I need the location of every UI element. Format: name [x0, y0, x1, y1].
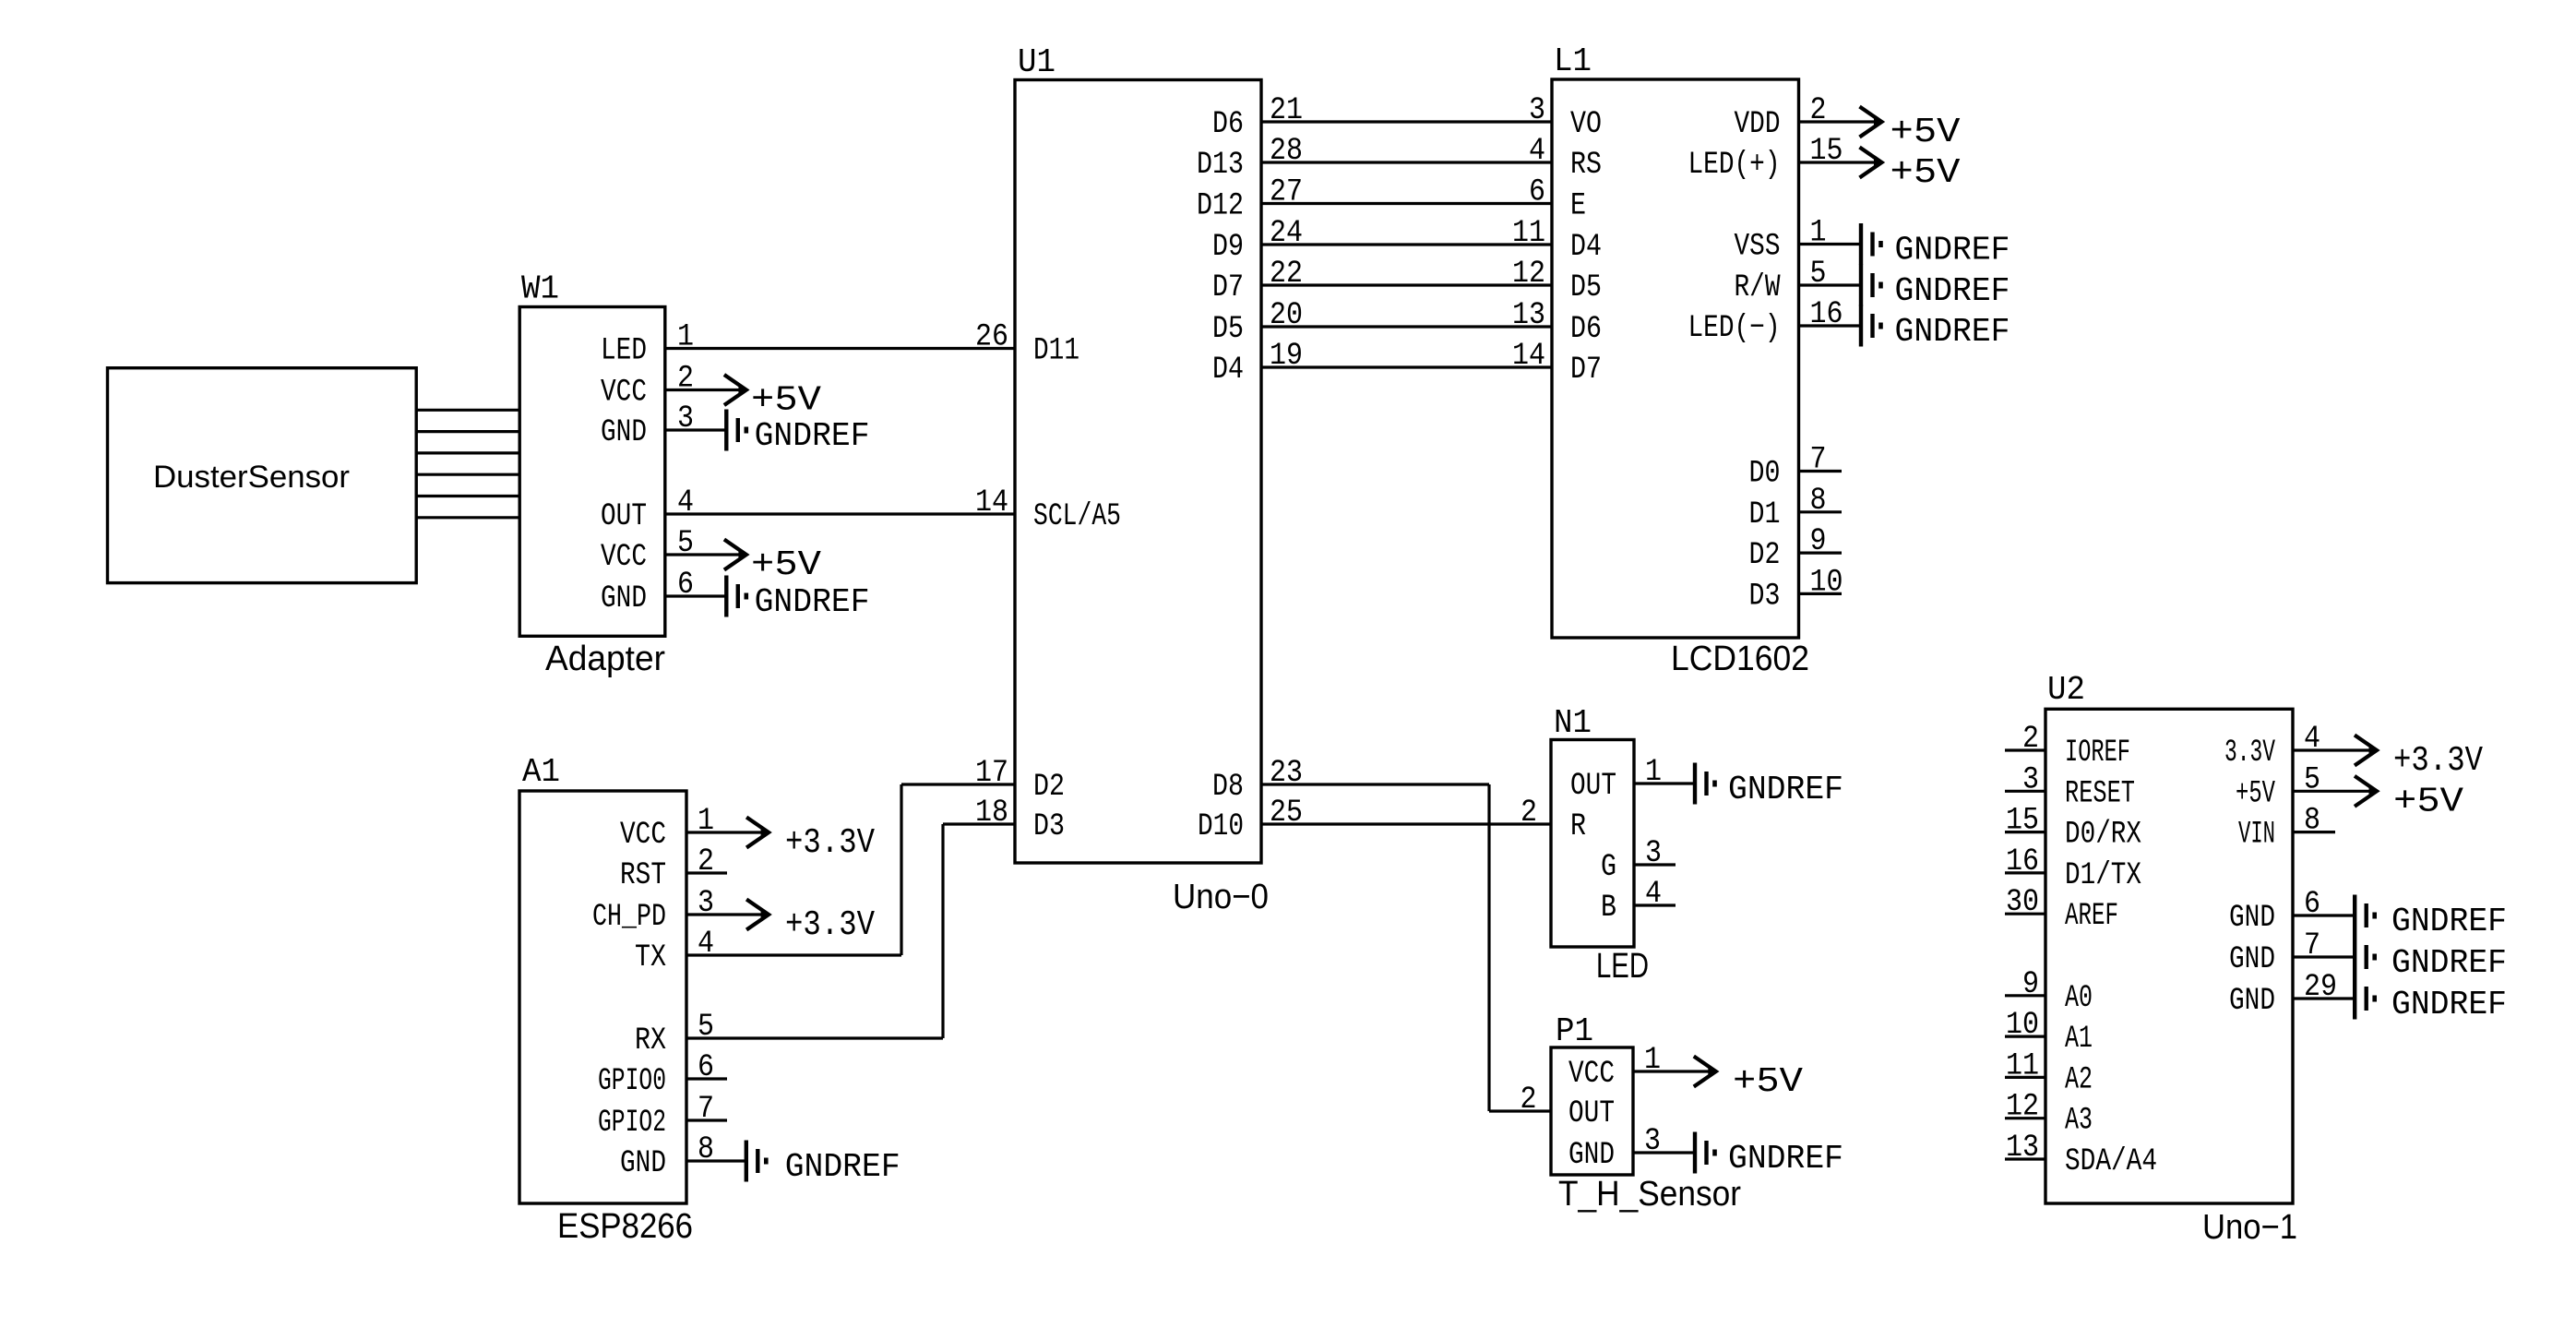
U2 pin 29 GND: [2229, 970, 2337, 1019]
svg-text:D3: D3: [1749, 579, 1781, 614]
A1 pin 3 CH_PD: [592, 886, 714, 935]
U1 pin 23 D8: [1212, 756, 1303, 805]
svg-text:LED: LED: [601, 334, 647, 369]
L1 pin 16 LED(-): [1688, 297, 1843, 346]
svg-text:VCC: VCC: [1568, 1057, 1615, 1092]
U2 pin 6 GND: [2229, 887, 2320, 936]
W1 pin 2 VCC label: [601, 362, 694, 411]
power +5V at W1 pin2: [724, 375, 821, 421]
W1 pin 5 VCC label: [601, 526, 694, 575]
svg-text:VIN: VIN: [2238, 818, 2275, 853]
svg-text:VDD: VDD: [1735, 107, 1781, 142]
L1 pin 6 E: [1529, 175, 1586, 224]
svg-text:GND: GND: [1568, 1138, 1615, 1173]
wire bus line 2 DusterSensor to W1: [416, 430, 519, 433]
ground GNDREF at U2 pin 7: [2355, 937, 2507, 983]
U2 pin 11 A2: [2006, 1048, 2093, 1097]
svg-text:GNDREF: GNDREF: [755, 417, 870, 455]
svg-text:OUT: OUT: [1568, 1096, 1615, 1131]
wire U2 A0 stub: [2005, 994, 2045, 997]
svg-text:AREF: AREF: [2065, 899, 2118, 934]
L1 pin 7 D0 stub: [1749, 443, 1843, 492]
microcontroller U2 Uno-1 body: [2045, 671, 2297, 1247]
U2 pin 8 VIN stub: [2238, 804, 2335, 853]
L1 pin 15 LED(+): [1688, 134, 1843, 183]
L1 pin 14 D7: [1512, 339, 1602, 388]
wire A1 RX to U1 D3 (net RX): [686, 824, 1015, 1038]
svg-text:R: R: [1570, 809, 1586, 844]
wire U2 D1/TX stub: [2005, 871, 2045, 874]
U1 pin 14 SCL/A5: [975, 485, 1121, 534]
A1 pin 7 GPIO2: [598, 1092, 714, 1141]
svg-text:+3.3V: +3.3V: [2393, 741, 2483, 781]
wire U2 A1 stub: [2005, 1035, 2045, 1037]
svg-text:D2: D2: [1033, 770, 1065, 805]
U2 pin 5 +5V: [2236, 762, 2320, 811]
power +3.3V at A1 CH_PD: [746, 900, 875, 946]
W1 pin 1 LED label: [601, 320, 694, 369]
svg-text:D11: D11: [1033, 334, 1079, 369]
A1 pin 1 VCC: [620, 804, 714, 853]
svg-text:GNDREF: GNDREF: [2391, 903, 2507, 940]
power +5V at L1 VDD: [1860, 107, 1961, 153]
svg-text:D7: D7: [1212, 270, 1244, 305]
svg-text:GNDREF: GNDREF: [1728, 1140, 1843, 1178]
wire W1 pin3 to GNDREF: [665, 428, 727, 431]
wire U1 to L1 RS: [1261, 161, 1552, 163]
L1 pin 8 D1 stub: [1749, 484, 1843, 532]
svg-text:U2: U2: [2047, 671, 2085, 709]
svg-text:GPIO0: GPIO0: [598, 1064, 666, 1099]
svg-text:CH_PD: CH_PD: [592, 900, 666, 935]
svg-text:L1: L1: [1554, 42, 1592, 80]
wire bus line 5 DusterSensor to W1: [416, 495, 519, 497]
svg-text:D6: D6: [1570, 312, 1602, 347]
svg-text:D7: D7: [1570, 353, 1602, 388]
svg-text:D4: D4: [1212, 353, 1244, 388]
wire U2 +5V to +5V: [2293, 790, 2378, 793]
wire U1 to L1 D7: [1261, 365, 1552, 368]
U2 pin 10 A1: [2006, 1008, 2093, 1057]
L1 pin 2 VDD: [1735, 93, 1827, 142]
connector W1 body: [519, 270, 665, 678]
svg-text:D13: D13: [1197, 148, 1244, 183]
U1 pin 25 D10: [1198, 796, 1303, 844]
ground GNDREF at L1 LED(-): [1861, 305, 2010, 352]
U1 pin 20 D5: [1212, 298, 1303, 347]
wire bus line 3 DusterSensor to W1: [416, 451, 519, 454]
L1 pin 13 D6: [1512, 298, 1602, 347]
power +5V at W1 pin5: [724, 540, 821, 586]
wire U2 A3 stub: [2005, 1117, 2045, 1119]
U2 pin 4 3.3V: [2224, 722, 2320, 771]
wire L1 LED(-) to GNDREF: [1799, 324, 1862, 327]
L1 pin 5 R/W: [1735, 257, 1827, 305]
ground GNDREF at L1 VSS: [1861, 223, 2010, 269]
U1 pin 18 D3: [975, 796, 1065, 844]
U1 pin 22 D7: [1212, 257, 1303, 305]
microcontroller U1 Uno-0 body: [1015, 43, 1269, 916]
svg-text:GNDREF: GNDREF: [1895, 313, 2010, 351]
wire L1 VDD to +5V: [1799, 120, 1883, 123]
component DusterSensor (sensor block): [108, 368, 417, 583]
svg-text:GNDREF: GNDREF: [1728, 771, 1843, 808]
L1 pin 11 D4: [1512, 216, 1602, 265]
svg-text:TX: TX: [635, 940, 666, 975]
wire U2 RESET stub: [2005, 790, 2045, 793]
A1 pin 8 GND: [620, 1132, 714, 1181]
svg-text:D5: D5: [1570, 270, 1602, 305]
svg-text:VCC: VCC: [620, 818, 666, 853]
svg-text:GNDREF: GNDREF: [785, 1148, 900, 1186]
U2 pin 3 RESET: [2022, 762, 2135, 811]
svg-text:U1: U1: [1018, 43, 1055, 81]
svg-text:RX: RX: [635, 1023, 666, 1059]
power +5V at U2 pin5: [2355, 776, 2463, 822]
wire U1 to L1 VO: [1261, 120, 1552, 123]
U1 pin 27 D12: [1197, 175, 1303, 224]
svg-text:A0: A0: [2065, 981, 2093, 1016]
svg-text:D2: D2: [1749, 538, 1781, 573]
svg-text:RESET: RESET: [2065, 776, 2135, 811]
wire U1 D8 to P1 OUT (net D8): [1261, 784, 1551, 1111]
A1 pin 6 GPIO0: [598, 1050, 714, 1099]
svg-text:Uno−0: Uno−0: [1173, 878, 1269, 916]
module A1 ESP8266 body: [519, 753, 693, 1246]
U1 pin 26 D11: [975, 320, 1079, 369]
P1 pin 1 VCC: [1568, 1043, 1661, 1092]
svg-text:+3.3V: +3.3V: [785, 905, 875, 945]
svg-text:GND: GND: [2229, 984, 2275, 1019]
power +3.3V at U2 pin4: [2355, 736, 2483, 782]
U2 pin 2 IOREF: [2022, 722, 2130, 771]
svg-text:+5V: +5V: [2236, 776, 2275, 811]
svg-text:D1/TX: D1/TX: [2065, 858, 2141, 893]
wire U2 GND pin 6 to GNDREF: [2293, 914, 2355, 916]
wire U2 3.3V to +3.3V: [2293, 748, 2378, 751]
svg-text:G: G: [1601, 850, 1616, 885]
svg-text:+5V: +5V: [1733, 1062, 1803, 1102]
svg-text:+5V: +5V: [2393, 782, 2463, 821]
svg-text:A3: A3: [2065, 1104, 2093, 1139]
U2 pin 13 SDA/A4: [2006, 1131, 2157, 1179]
U2 pin 7 GND: [2229, 928, 2320, 977]
wire U2 GND pin 7 to GNDREF: [2293, 955, 2355, 958]
wire A1 VCC to +3.3V: [686, 831, 769, 833]
wire A1 GPIO2 stub: [686, 1119, 727, 1121]
svg-text:Uno−1: Uno−1: [2202, 1208, 2297, 1247]
U1 pin 17 D2: [975, 756, 1065, 805]
svg-text:D3: D3: [1033, 809, 1065, 844]
svg-text:D0/RX: D0/RX: [2065, 818, 2141, 853]
power +3.3V at A1 VCC: [746, 818, 875, 864]
svg-text:A1: A1: [2065, 1022, 2093, 1057]
svg-text:+5V: +5V: [751, 545, 821, 585]
svg-text:IOREF: IOREF: [2065, 736, 2130, 771]
svg-text:N1: N1: [1554, 704, 1592, 742]
U1 pin 21 D6: [1212, 93, 1303, 142]
U1 pin 24 D9: [1212, 216, 1303, 265]
ground GNDREF at A1 GND: [746, 1141, 900, 1187]
power +5V at L1 LED(+): [1860, 148, 1961, 194]
L1 pin 3 VO: [1529, 93, 1602, 142]
N1 pin 2 R: [1521, 796, 1586, 844]
svg-text:RST: RST: [620, 858, 666, 893]
wire P1 GND to GNDREF: [1633, 1151, 1695, 1154]
L1 pin 9 D2 stub: [1749, 524, 1843, 573]
U2 pin 15 D0/RX: [2006, 804, 2141, 853]
rgb led N1 body: [1551, 704, 1649, 986]
wire W1 pin5 to +5V: [665, 553, 747, 556]
svg-text:D10: D10: [1198, 809, 1244, 844]
svg-text:D12: D12: [1197, 189, 1244, 224]
ground GNDREF at U2 pin 29: [2355, 978, 2507, 1024]
svg-text:VSS: VSS: [1735, 230, 1781, 265]
wire A1 RST stub: [686, 871, 727, 874]
svg-text:GNDREF: GNDREF: [2391, 944, 2507, 982]
wire W1 pin2 to +5V: [665, 389, 747, 391]
wire U1 to L1 E: [1261, 202, 1552, 205]
P1 pin 3 GND: [1568, 1124, 1661, 1173]
svg-text:D9: D9: [1212, 230, 1244, 265]
svg-text:VO: VO: [1570, 107, 1602, 142]
wire U1 to L1 D5: [1261, 283, 1552, 286]
svg-text:LED(+): LED(+): [1688, 148, 1781, 183]
U2 pin 16 D1/TX: [2006, 844, 2141, 893]
svg-text:LCD1602: LCD1602: [1671, 640, 1809, 678]
wire bus line 4 DusterSensor to W1: [416, 473, 519, 476]
L1 pin 12 D5: [1512, 257, 1602, 305]
svg-text:GNDREF: GNDREF: [1895, 232, 2010, 269]
wire A1 TX to U1 D2 (net TX): [686, 784, 1015, 955]
U2 pin 12 A3: [2006, 1090, 2093, 1139]
svg-text:ESP8266: ESP8266: [557, 1207, 693, 1246]
svg-text:B: B: [1601, 891, 1616, 926]
svg-text:E: E: [1570, 189, 1586, 224]
svg-text:T_H_Sensor: T_H_Sensor: [1558, 1175, 1741, 1214]
svg-text:3.3V: 3.3V: [2224, 736, 2275, 771]
svg-text:GNDREF: GNDREF: [755, 583, 870, 621]
svg-text:VCC: VCC: [601, 376, 647, 411]
svg-text:LED(−): LED(−): [1688, 311, 1781, 346]
svg-text:+5V: +5V: [1890, 153, 1961, 193]
wire N1 OUT to GNDREF: [1634, 782, 1695, 784]
ground GNDREF at L1 R/W: [1861, 265, 2010, 311]
A1 pin 5 RX: [635, 1010, 714, 1059]
svg-text:+5V: +5V: [751, 381, 821, 421]
svg-text:SCL/A5: SCL/A5: [1033, 499, 1121, 534]
wire bus line 1 DusterSensor to W1: [416, 409, 519, 412]
U1 pin 28 D13: [1197, 134, 1303, 183]
svg-text:GND: GND: [2229, 942, 2275, 977]
wire U2 SDA/A4 stub: [2005, 1157, 2045, 1160]
ground GNDREF at P1 GND: [1695, 1132, 1843, 1178]
svg-text:GND: GND: [2229, 901, 2275, 936]
wire P1 VCC to +5V: [1633, 1070, 1716, 1072]
svg-text:LED: LED: [1596, 947, 1649, 986]
wire W1 LED pin1 to U1 D11: [665, 347, 1015, 350]
wire U2 IOREF stub: [2005, 748, 2045, 751]
ground GNDREF at U2 pin 6: [2355, 895, 2507, 941]
L1 pin 4 RS: [1529, 134, 1602, 183]
svg-text:RS: RS: [1570, 148, 1602, 183]
svg-text:A2: A2: [2065, 1062, 2093, 1097]
svg-text:D0: D0: [1749, 457, 1781, 492]
ground GNDREF at N1 OUT: [1695, 763, 1843, 809]
display L1 LCD1602 body: [1552, 42, 1809, 678]
svg-text:GND: GND: [620, 1146, 666, 1181]
L1 pin 10 D3 stub: [1749, 565, 1843, 614]
svg-text:D4: D4: [1570, 230, 1602, 265]
wire L1 VSS to GNDREF: [1799, 243, 1862, 245]
svg-text:OUT: OUT: [1570, 769, 1616, 804]
W1 pin 3 GND label: [601, 401, 694, 450]
svg-text:GNDREF: GNDREF: [2391, 986, 2507, 1023]
svg-text:GND: GND: [601, 415, 647, 450]
N1 pin 3 G stub: [1601, 836, 1676, 885]
wire U1 D10 to N1 R: [1261, 822, 1551, 825]
svg-text:+3.3V: +3.3V: [785, 823, 875, 863]
wire L1 R/W to GNDREF: [1799, 283, 1862, 286]
svg-text:GNDREF: GNDREF: [1895, 272, 2010, 310]
ground GNDREF at W1 pin3: [726, 410, 869, 456]
U2 pin 9 A0: [2022, 967, 2093, 1016]
wire bus line 6 DusterSensor to W1: [416, 516, 519, 519]
svg-text:D6: D6: [1212, 107, 1244, 142]
svg-text:+5V: +5V: [1890, 113, 1961, 152]
svg-text:GPIO2: GPIO2: [598, 1106, 666, 1141]
wire L1 LED(+) to +5V: [1799, 161, 1883, 163]
svg-text:R/W: R/W: [1735, 270, 1781, 305]
N1 pin 1 OUT: [1570, 755, 1662, 804]
sensor P1 T_H_Sensor body: [1551, 1012, 1741, 1214]
wire U2 AREF stub: [2005, 913, 2045, 915]
N1 pin 4 B stub: [1601, 877, 1676, 926]
U1 pin 19 D4: [1212, 339, 1303, 388]
ground GNDREF at W1 pin6: [726, 576, 869, 622]
svg-text:GND: GND: [601, 581, 647, 616]
W1 pin 4 OUT label: [601, 485, 694, 534]
wire U2 A2 stub: [2005, 1076, 2045, 1079]
power +5V at P1 VCC: [1694, 1057, 1803, 1103]
A1 pin 2 RST: [620, 844, 714, 893]
svg-text:OUT: OUT: [601, 499, 647, 534]
wire A1 GPIO0 stub: [686, 1077, 727, 1080]
svg-text:SDA/A4: SDA/A4: [2065, 1144, 2157, 1179]
svg-text:P1: P1: [1556, 1012, 1593, 1050]
svg-text:D8: D8: [1212, 770, 1244, 805]
wire U1 to L1 D6: [1261, 325, 1552, 328]
svg-text:W1: W1: [521, 270, 559, 308]
wire A1 GND to GNDREF: [686, 1159, 746, 1162]
A1 pin 4 TX: [635, 927, 714, 975]
W1 pin 6 GND label: [601, 568, 694, 616]
svg-text:DusterSensor: DusterSensor: [153, 460, 350, 495]
U2 pin 30 AREF: [2006, 885, 2118, 934]
wire U2 D0/RX stub: [2005, 831, 2045, 833]
P1 pin 2 OUT: [1521, 1083, 1616, 1131]
wire A1 CH_PD to +3.3V: [686, 913, 769, 915]
wire W1 OUT pin4 to U1 SCL/A5: [665, 512, 1015, 515]
svg-text:A1: A1: [522, 753, 560, 791]
svg-text:D1: D1: [1749, 497, 1781, 532]
svg-text:VCC: VCC: [601, 540, 647, 575]
L1 pin 1 VSS: [1735, 216, 1827, 265]
svg-text:Adapter: Adapter: [545, 640, 665, 678]
wire W1 pin6 to GNDREF: [665, 594, 727, 597]
wire U2 GND pin 29 to GNDREF: [2293, 997, 2355, 999]
wire U1 to L1 D4: [1261, 243, 1552, 245]
svg-text:D5: D5: [1212, 312, 1244, 347]
